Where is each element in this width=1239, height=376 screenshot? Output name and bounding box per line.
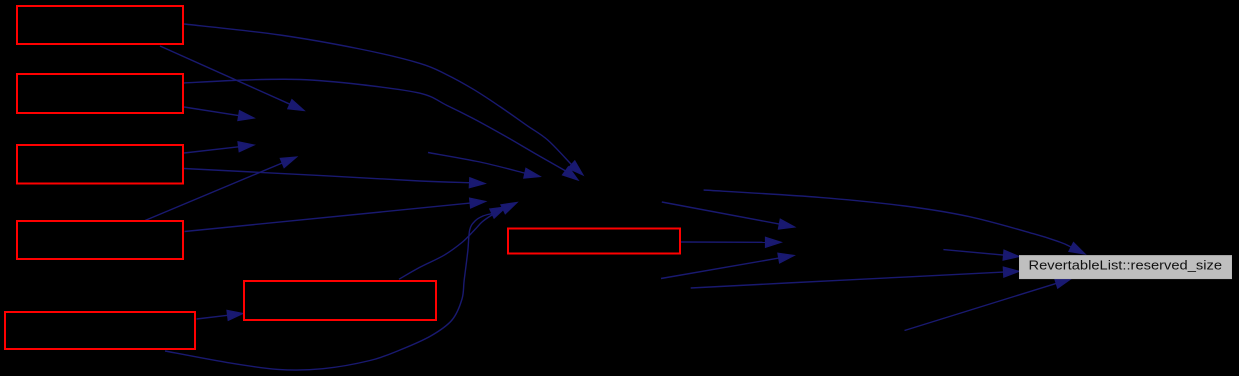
edge callers5 -> hidden node C (bottom sweep) <box>165 207 506 370</box>
caller box 2 (truncated red node) <box>17 74 183 113</box>
caller box 6 (truncated red node) <box>244 281 436 320</box>
edge hidden -> reserved_size (from below) <box>905 279 1072 331</box>
caller box 7 (truncated red node) <box>508 229 680 254</box>
edge hidden -> hidden node D <box>428 153 540 179</box>
edge hidden -> hidden node E (upper) <box>662 202 795 229</box>
edge callers1 -> hidden node A (steep line) <box>160 46 304 111</box>
edge callers7 -> hidden node E (horizontal) <box>681 237 781 247</box>
caller box 1 (truncated red node) <box>17 6 183 44</box>
edge hidden node F -> reserved_size (long right curve) <box>704 190 1085 254</box>
edge callers3 -> hidden node B <box>184 142 254 153</box>
current node box RevertableList::reserved_size <box>1020 256 1232 279</box>
edge callers5 -> callers6 <box>197 310 244 320</box>
edge callers4 -> hidden node C (long rising line) <box>185 198 486 231</box>
caller box 3 (truncated red node) <box>17 145 183 184</box>
edge callers3 -> hidden node C (long flat line) <box>184 169 485 188</box>
edge hidden -> reserved_size (short) <box>943 250 1019 261</box>
edge callers2 -> hidden node B <box>184 107 254 121</box>
svg-text:RevertableList::reserved_size: RevertableList::reserved_size <box>1029 258 1223 273</box>
edge callers2 -> hidden node X (second curve) <box>184 79 578 180</box>
caller box 5 (truncated red node) <box>5 312 195 349</box>
edge hidden -> reserved_size (long low line) <box>691 267 1019 288</box>
edge hidden -> hidden node E (lower) <box>661 253 794 278</box>
caller box 4 (truncated red node) <box>17 221 183 259</box>
edge callers6 -> hidden node C (curve from box top) <box>399 203 517 280</box>
edge callers1 -> hidden node X (long top curve) <box>184 24 583 175</box>
edge callers4 -> hidden node A (rising line) <box>145 157 297 221</box>
